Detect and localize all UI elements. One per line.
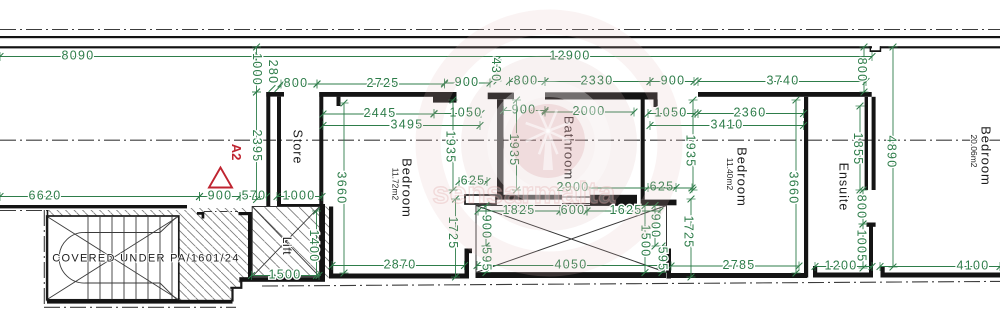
stairwell top wall segment a (496, 195, 562, 200)
svg-text:sensarmalta: sensarmalta (432, 176, 616, 210)
dimension 1825 (475, 203, 564, 217)
bedroom2 south-west pier (667, 249, 672, 279)
svg-text:1000: 1000 (250, 53, 264, 86)
svg-text:A2: A2 (229, 144, 244, 161)
dimension 1000 (250, 44, 264, 96)
dimension 8090 (0, 48, 259, 62)
covered area north wall (0, 205, 187, 208)
dimension 280 (266, 60, 281, 92)
store cavity wall (277, 97, 281, 207)
svg-text:1400: 1400 (307, 229, 321, 262)
stairwell top opening sill lines (562, 196, 590, 198)
corridor cap wall (488, 93, 514, 100)
dimension 1050 (431, 105, 485, 119)
front facade wall outer line (0, 36, 1000, 38)
svg-text:3740: 3740 (766, 73, 799, 87)
dimension 900 (441, 75, 493, 89)
dimension 2000 (542, 104, 638, 118)
svg-text:1200: 1200 (824, 258, 857, 272)
bedroom2 pier step (664, 249, 667, 254)
dimension 1500 (248, 267, 322, 281)
lift shaft cross line 1 (252, 207, 319, 277)
dimension 3410 (647, 117, 807, 131)
dimension 2360 (695, 105, 807, 119)
dimension 3495 (320, 117, 484, 131)
dimension 3660 (787, 97, 801, 277)
svg-text:Lift: Lift (280, 237, 294, 255)
svg-text:Ensuite: Ensuite (837, 163, 851, 212)
dimension 1725 (682, 196, 696, 281)
svg-text:8090: 8090 (61, 48, 94, 62)
dimension 1050 (645, 105, 699, 119)
ensuite east wall lower (869, 224, 873, 278)
svg-text:900: 900 (208, 188, 233, 202)
dimension 800 (506, 73, 548, 87)
site boundary dash-dot line bottom-left (44, 306, 236, 308)
svg-text:4890: 4890 (885, 135, 899, 168)
bedroom1 south-east pier (465, 249, 470, 279)
svg-text:800: 800 (284, 76, 309, 90)
dimension 2395 (250, 89, 264, 203)
store door jamb stub (337, 97, 341, 106)
store east wall (319, 92, 323, 207)
bathroom east wall (641, 100, 645, 200)
lift west wall (248, 212, 252, 280)
site boundary dash-dot segment left (0, 210, 47, 212)
svg-text:1725: 1725 (682, 215, 696, 248)
bedroom1 west wall (329, 207, 333, 279)
dimension 800 (855, 187, 869, 228)
svg-text:1855: 1855 (851, 132, 865, 165)
lift east wall (320, 204, 326, 280)
dimension 2445 (320, 106, 438, 120)
dimension 900 (647, 73, 698, 87)
dimension 625 (456, 173, 491, 187)
dimension 1935 (507, 97, 521, 194)
front facade wall inner line west (0, 46, 872, 48)
dimension 1000 (274, 188, 326, 202)
dimension 2900 (556, 180, 695, 194)
site boundary dash-dot segment near lift (204, 211, 238, 213)
svg-text:2725: 2725 (366, 76, 399, 90)
bedroom1 north wall (319, 92, 444, 97)
svg-text:595: 595 (656, 247, 670, 272)
svg-text:1000: 1000 (282, 188, 315, 202)
site boundary dash-dot line top (0, 29, 1000, 31)
svg-text:1935: 1935 (684, 134, 698, 167)
stairwell bottom wall (476, 273, 667, 278)
dimension 570 (237, 188, 270, 202)
store west wall (266, 92, 270, 206)
bedroom1 north-east pier (433, 92, 457, 103)
svg-text:Bedroom: Bedroom (735, 147, 750, 207)
dimension 600 (557, 203, 591, 217)
svg-text:1005: 1005 (855, 229, 869, 262)
svg-text:COVERED UNDER PA/1601/24: COVERED UNDER PA/1601/24 (52, 252, 240, 264)
svg-text:3660: 3660 (787, 171, 801, 204)
facade notch (870, 46, 882, 52)
dimension 800 (278, 76, 321, 90)
lift shaft inner box (252, 207, 319, 277)
dimension 1005 (855, 221, 869, 272)
svg-text:11.72m2: 11.72m2 (390, 168, 400, 201)
svg-text:Store: Store (291, 130, 305, 165)
ensuite east wall upper leg east (872, 97, 876, 190)
bathroom north-east pier (654, 100, 658, 108)
svg-text:570: 570 (242, 188, 267, 202)
dimension 1725 (446, 196, 460, 281)
dimension 900 (196, 188, 243, 202)
dimension 3740 (695, 73, 870, 87)
svg-text:1935: 1935 (444, 130, 458, 163)
stairs under covered area (47, 216, 179, 300)
stair opening jamb (197, 212, 204, 219)
dimension 4890 (885, 44, 899, 271)
bathroom north wall (545, 92, 658, 99)
dimension 625 (645, 179, 680, 193)
dimension 3660 (335, 100, 349, 277)
ensuite east wall crossbar (867, 223, 876, 227)
stairwell top wall segment c (641, 200, 677, 206)
hatch strip east of lift (325, 207, 329, 278)
svg-text:4100: 4100 (956, 258, 989, 272)
stairwell void outline (476, 206, 667, 273)
svg-text:800: 800 (855, 58, 869, 83)
site boundary dash-dot line left vertical (43, 210, 45, 307)
watermark logo (428, 22, 670, 264)
dimension 800 (855, 44, 869, 96)
front facade wall inner line east (880, 46, 1000, 48)
bedroom1/bathroom partition wall (497, 99, 504, 196)
dimension 430 (489, 57, 503, 85)
dimension 595 (656, 243, 670, 276)
stairwell void cross line 2 (476, 206, 667, 273)
dimension 900 (500, 102, 548, 116)
svg-text:3410: 3410 (710, 117, 743, 131)
bedroom3 south wall (881, 273, 1000, 278)
dimension 595 (480, 243, 494, 276)
lift shaft cross line 2 (252, 207, 319, 277)
svg-text:Bedroom: Bedroom (400, 158, 415, 218)
bedroom2 north wall (698, 92, 872, 97)
stairwell top opening frame (465, 195, 496, 204)
dimension 4100 (877, 258, 1000, 272)
dimension 4050 (474, 257, 664, 271)
dimension 6620 (0, 188, 203, 202)
dimension 12900 (253, 48, 876, 62)
svg-text:Bedroom: Bedroom (979, 126, 994, 186)
bedroom3 south-west stub (881, 266, 885, 278)
svg-text:6620: 6620 (28, 188, 61, 202)
ensuite east wall upper leg west (865, 97, 868, 190)
hatched covered area under PA/1601/24 (47, 208, 248, 302)
store south wall / lift top wall (277, 204, 325, 207)
dimension 1500 (639, 202, 653, 276)
svg-text:280: 280 (266, 60, 280, 85)
bedroom2 south wall (671, 273, 807, 278)
dimension 2785 (668, 258, 803, 272)
store north-west cap (266, 92, 284, 97)
svg-text:800: 800 (855, 195, 869, 220)
dimension 1200 (812, 258, 876, 272)
covered area step outline (230, 280, 241, 302)
bedroom1 south wall (329, 274, 467, 279)
bedroom1 pier step (469, 249, 472, 254)
covered area west border (47, 210, 49, 302)
svg-text:2395: 2395 (250, 129, 264, 162)
lift west wall cap (239, 212, 253, 215)
stairwell top wall segment b (590, 195, 637, 206)
svg-text:2785: 2785 (722, 258, 755, 272)
ensuite south wall stub (813, 266, 817, 278)
dimension 1935 (684, 97, 698, 194)
red triangle marker A2 (209, 168, 232, 188)
dimension 900 (480, 202, 494, 249)
svg-text:20.06m2: 20.06m2 (969, 134, 979, 167)
svg-text:11.40m2: 11.40m2 (725, 158, 735, 191)
lift south wall (239, 277, 325, 282)
dimension 1400 (307, 208, 321, 279)
dimension 2330 (542, 73, 654, 87)
bedroom2/ensuite partition wall (804, 97, 808, 278)
site boundary dash-dot line middle (0, 139, 1000, 141)
dimension 1625 (584, 203, 664, 217)
dimension 1855 (851, 103, 865, 194)
dimension 1935 (444, 97, 458, 194)
covered area bottom wall (47, 300, 233, 304)
ensuite south wall (813, 273, 872, 278)
svg-text:3660: 3660 (335, 171, 349, 204)
stairwell void cross line 1 (476, 206, 667, 273)
site boundary dash-dot line bottom (262, 281, 1000, 286)
dimension 2870 (329, 257, 468, 271)
dimension 900 (649, 202, 663, 249)
dimension 2725 (314, 76, 448, 90)
svg-text:2870: 2870 (383, 257, 416, 271)
svg-text:1500: 1500 (268, 267, 301, 281)
